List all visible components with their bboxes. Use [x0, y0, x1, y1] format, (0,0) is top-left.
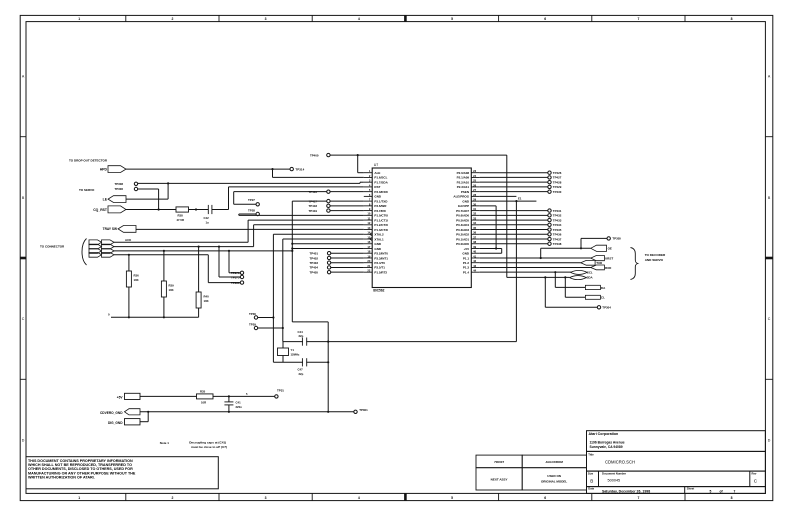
svg-text:WHICH SHALL NOT BE REPRODUCED,: WHICH SHALL NOT BE REPRODUCED, TRANSFERR…: [28, 463, 132, 467]
svg-text:Sunnyvale, CA 94089: Sunnyvale, CA 94089: [590, 445, 623, 449]
svg-text:P1.1: P1.1: [463, 256, 470, 260]
wire ground rail bottom: [140, 411, 354, 413]
svg-text:10K: 10K: [134, 278, 139, 282]
svg-text:P3.5/T1: P3.5/T1: [374, 266, 385, 270]
wire XTAL1 net pin 15: [283, 239, 364, 342]
wire TXD net pin 42: [480, 262, 581, 264]
svg-text:CL: CL: [601, 296, 605, 300]
wire pulldown ground rail: [108, 313, 199, 319]
test point TP402: [309, 256, 363, 260]
svg-text:TP304: TP304: [602, 306, 611, 310]
svg-text:3: 3: [265, 496, 267, 500]
svg-text:TP433: TP433: [553, 218, 562, 222]
svg-text:WRITTEN AUTHORIZATION OF ATARI: WRITTEN AUTHORIZATION OF ATARI.: [28, 475, 95, 479]
wire CL branch: [565, 277, 585, 297]
svg-text:TP436: TP436: [553, 233, 562, 237]
svg-text:P0.5/AD5: P0.5/AD5: [456, 218, 469, 222]
svg-text:HPD: HPD: [100, 167, 108, 171]
svg-text:TP432: TP432: [553, 214, 562, 218]
svg-text:ALE/PROG: ALE/PROG: [453, 195, 469, 199]
svg-text:C: C: [768, 317, 771, 321]
svg-text:TP437: TP437: [553, 237, 562, 241]
svg-text:P2.3/A11: P2.3/A11: [457, 185, 470, 189]
test point TP433: [480, 218, 562, 222]
connector LE: [103, 196, 126, 203]
svg-text:GND: GND: [374, 195, 382, 199]
svg-text:P0.3/AD3: P0.3/AD3: [456, 228, 469, 232]
svg-text:TP428: TP428: [553, 180, 562, 184]
wire W3: [114, 250, 293, 252]
test point TP29: [249, 323, 284, 330]
svg-text:Atari Corporation: Atari Corporation: [589, 432, 619, 436]
capacitor C41: [224, 396, 242, 413]
svg-text:P1.1/CT1I: P1.1/CT1I: [374, 218, 388, 222]
svg-text:TP31: TP31: [277, 388, 284, 392]
svg-text:Decoupling caps at (C41): Decoupling caps at (C41): [189, 441, 226, 445]
svg-text:TP376: TP376: [231, 271, 240, 275]
proprietary note box: [26, 457, 218, 489]
test point TP438: [480, 242, 562, 246]
wire DIG_GND riser: [140, 412, 148, 422]
svg-text:P1.6/SCL: P1.6/SCL: [374, 176, 387, 180]
test point TP419: [308, 209, 363, 213]
svg-text:P0.7/AD7: P0.7/AD7: [456, 209, 469, 213]
wire pin 28: [480, 195, 517, 197]
svg-text:TP429: TP429: [553, 185, 562, 189]
svg-text:TP402: TP402: [309, 256, 318, 260]
svg-text:3: 3: [265, 17, 267, 21]
svg-text:47.5R: 47.5R: [177, 218, 184, 222]
svg-text:TO SERVO: TO SERVO: [79, 188, 95, 192]
svg-text:TRAY SW: TRAY SW: [103, 227, 117, 231]
svg-text:P2.0/A08: P2.0/A08: [457, 171, 470, 175]
connector SCL: [571, 270, 593, 274]
wire RST net to pin 4: [212, 187, 364, 210]
svg-text:OE: OE: [608, 247, 612, 251]
svg-text:7: 7: [637, 496, 639, 500]
test point TP401: [309, 252, 363, 256]
svg-text:ACK: ACK: [125, 238, 132, 242]
test point TP305: [580, 237, 621, 250]
svg-text:P2.2/A10: P2.2/A10: [457, 180, 470, 184]
svg-text:C47: C47: [298, 368, 304, 372]
svg-text:P0.4/AD4: P0.4/AD4: [456, 223, 469, 227]
test point TP376: [229, 251, 244, 275]
wire GND pin 16: [291, 243, 364, 245]
svg-text:220n: 220n: [236, 405, 243, 409]
svg-text:80C562: 80C562: [373, 289, 384, 293]
svg-text:Note 1: Note 1: [160, 441, 170, 445]
connector SDA: [570, 276, 594, 280]
wire TP308 to pin 3 SDA: [138, 182, 364, 183]
svg-text:TP29: TP29: [249, 323, 256, 327]
svg-text:5: 5: [451, 496, 453, 500]
wire DA branch: [555, 272, 585, 287]
svg-text:C44: C44: [298, 330, 304, 334]
test point TP426: [480, 171, 562, 175]
connector OE: [540, 245, 612, 259]
svg-text:TP434: TP434: [553, 223, 562, 227]
test point TP31: [275, 388, 285, 398]
svg-text:TO DROP OUT DETECTOR: TO DROP OUT DETECTOR: [69, 159, 108, 163]
svg-text:1: 1: [78, 17, 80, 21]
connector DA: [585, 285, 606, 290]
svg-text:TP435: TP435: [553, 228, 562, 232]
svg-text:D: D: [22, 438, 25, 442]
svg-text:P3.0/RXD: P3.0/RXD: [374, 190, 388, 194]
svg-text:ORIGINAL MODEL: ORIGINAL MODEL: [541, 480, 567, 484]
test point TP404: [309, 266, 363, 270]
svg-text:7: 7: [734, 489, 736, 493]
svg-text:must be close to uP (U7): must be close to uP (U7): [191, 445, 227, 449]
svg-text:8: 8: [731, 17, 733, 21]
wire W4: [114, 254, 208, 256]
svg-text:TP380: TP380: [231, 281, 240, 285]
svg-text:GND: GND: [374, 242, 382, 246]
svg-text:700007: 700007: [494, 460, 504, 464]
test point TP417: [292, 199, 364, 203]
test point TP27: [234, 198, 260, 206]
test point TP30: [249, 312, 275, 319]
test point TP428: [480, 180, 562, 184]
svg-text:2: 2: [171, 496, 173, 500]
resistor R39: [161, 251, 174, 317]
test point TP301: [354, 408, 368, 414]
svg-text:TP431: TP431: [553, 209, 562, 213]
test point TP403: [309, 261, 363, 265]
svg-text:P3.7/RD: P3.7/RD: [374, 209, 386, 213]
svg-text:GND: GND: [462, 252, 470, 256]
svg-text:4: 4: [358, 496, 360, 500]
wire CQ_RST to R38: [126, 209, 176, 211]
svg-text:TP28: TP28: [248, 209, 255, 213]
svg-text:P0.2/AD2: P0.2/AD2: [456, 233, 469, 237]
svg-text:R35: R35: [200, 389, 206, 393]
svg-text:TP427: TP427: [553, 176, 562, 180]
svg-text:P0.0/AD0: P0.0/AD0: [456, 242, 469, 246]
svg-text:TP405: TP405: [309, 270, 318, 274]
svg-text:TXD: TXD: [596, 261, 603, 265]
svg-text:TO CONNECTOR: TO CONNECTOR: [40, 245, 65, 249]
wire LE branch: [126, 182, 169, 199]
svg-text:12MHz: 12MHz: [291, 353, 300, 357]
wire ALE net: [330, 154, 507, 277]
test point TP28: [239, 209, 260, 216]
svg-text:R40: R40: [204, 295, 210, 299]
svg-text:RXD: RXD: [605, 266, 612, 270]
svg-text:XTAL2: XTAL2: [374, 233, 384, 237]
wire HPD net: [126, 168, 364, 177]
svg-text:22p: 22p: [299, 372, 304, 376]
resistor R38: [176, 207, 189, 222]
connector +5V: [117, 393, 140, 399]
wire SCL net pin 44: [480, 271, 571, 273]
svg-text:TP306: TP306: [114, 187, 123, 191]
svg-text:7: 7: [637, 17, 639, 21]
svg-text:SDA: SDA: [587, 276, 594, 280]
svg-text:EA/VPP: EA/VPP: [458, 204, 469, 208]
svg-text:TP30: TP30: [249, 312, 256, 316]
svg-text:NEXT ASSY: NEXT ASSY: [491, 478, 508, 482]
test point TP436: [480, 233, 562, 237]
capacitor C44: [283, 330, 517, 346]
op-amp U7 microcontroller 80C562: [364, 163, 480, 293]
svg-text:10K: 10K: [169, 288, 174, 292]
test point TP380: [208, 255, 243, 285]
svg-text:P1.4: P1.4: [463, 270, 470, 274]
svg-text:R36: R36: [134, 274, 140, 278]
svg-text:1196 Borregas Avenue: 1196 Borregas Avenue: [590, 441, 625, 445]
brace to decoder and servo: [631, 248, 667, 280]
svg-text:R39: R39: [169, 284, 175, 288]
svg-text:TP375: TP375: [231, 275, 240, 279]
wire TRAY SW to pin 13: [136, 228, 364, 230]
svg-text:C41: C41: [236, 401, 242, 405]
svg-text:P1.5/RT2: P1.5/RT2: [374, 270, 387, 274]
svg-text:8: 8: [731, 496, 733, 500]
wire R38 to C42: [189, 208, 209, 210]
svg-text:TP27: TP27: [248, 198, 255, 202]
test point TP429: [480, 185, 562, 189]
svg-text:USED ON: USED ON: [547, 474, 561, 478]
note 1 text: [160, 441, 227, 449]
svg-text:AND SERVO: AND SERVO: [645, 258, 664, 262]
svg-text:CDVERO_GND: CDVERO_GND: [100, 411, 123, 415]
svg-text:P1.3/CT3I: P1.3/CT3I: [374, 228, 388, 232]
svg-text:500045: 500045: [608, 479, 621, 483]
svg-text:5: 5: [451, 17, 453, 21]
wire GND pin 17: [291, 247, 364, 249]
test point TP304: [545, 277, 611, 309]
svg-text:THIS DOCUMENT CONTAINS PROPRIE: THIS DOCUMENT CONTAINS PROPRIETARY INFOR…: [28, 459, 133, 463]
svg-text:6: 6: [544, 496, 546, 500]
svg-text:TP401: TP401: [309, 252, 318, 256]
svg-text:P1.2: P1.2: [463, 261, 470, 265]
wire +5V rail: [140, 392, 275, 397]
svg-text:OTHER DOCUMENTS, DISCLOSED TO: OTHER DOCUMENTS, DISCLOSED TO OTHERS, US…: [28, 467, 133, 471]
svg-text:2: 2: [171, 17, 173, 21]
svg-text:TP308: TP308: [114, 182, 123, 186]
svg-text:P1.2/CT2I: P1.2/CT2I: [374, 223, 388, 227]
svg-text:U7: U7: [374, 163, 379, 167]
test point TP434: [480, 223, 562, 227]
svg-text:1u: 1u: [206, 220, 210, 224]
svg-text:+5V: +5V: [464, 247, 469, 251]
test point TP405: [309, 270, 363, 274]
svg-text:P3.1/TXD: P3.1/TXD: [374, 199, 388, 203]
test point TP432: [480, 214, 562, 218]
svg-text:LE: LE: [103, 197, 108, 201]
svg-text:GND: GND: [462, 199, 470, 203]
test point TP435: [480, 228, 562, 232]
svg-text:10R: 10R: [201, 400, 206, 404]
wire EA/VPP to +5V: [480, 206, 498, 250]
svg-text:1: 1: [78, 496, 80, 500]
title block: [587, 431, 766, 494]
svg-text:6: 6: [544, 17, 546, 21]
svg-text:Y1: Y1: [291, 348, 295, 352]
svg-text:10K: 10K: [204, 299, 209, 303]
connector RXD: [591, 265, 612, 270]
svg-text:P1.3: P1.3: [463, 266, 470, 270]
wire pin 7 net vertical: [291, 201, 293, 322]
svg-text:TP305: TP305: [612, 237, 621, 241]
wire +5V pin 39: [480, 248, 502, 253]
connector HPD: [100, 166, 126, 173]
svg-text:P2.1/A09: P2.1/A09: [457, 176, 470, 180]
svg-text:RST: RST: [374, 185, 380, 189]
test point TP314: [290, 167, 305, 171]
svg-text:ALE: ALE: [374, 171, 380, 175]
svg-text:TP400: TP400: [310, 153, 319, 157]
test point TP418: [308, 204, 363, 208]
test point TP308: [114, 182, 137, 186]
test point TP416: [234, 190, 364, 204]
test point TP437: [480, 237, 562, 241]
svg-text:P1.0/CT0I: P1.0/CT0I: [374, 214, 388, 218]
test point TP431: [480, 209, 562, 213]
svg-text:P3.6/WR: P3.6/WR: [374, 204, 387, 208]
wire GND pin 40: [480, 252, 502, 254]
connector TXD: [581, 260, 603, 265]
connector J1 host interface arrows: [89, 240, 114, 257]
test point TP400: [310, 153, 330, 157]
wire E1 ground net pin 29: [480, 197, 537, 342]
svg-text:P1.7/SDA: P1.7/SDA: [374, 180, 388, 184]
connector CQ_RST: [93, 206, 126, 213]
resistor R35: [197, 389, 214, 404]
wire URST net pin 41: [480, 257, 591, 259]
svg-text:CDMICRO.SCH: CDMICRO.SCH: [605, 459, 635, 464]
svg-text:URST: URST: [605, 256, 613, 260]
svg-text:5: 5: [710, 489, 712, 493]
svg-text:CQ_RST: CQ_RST: [93, 208, 108, 212]
crystal Y1: [278, 342, 300, 363]
resistor R36: [126, 255, 139, 317]
svg-text:XTAL1: XTAL1: [374, 237, 384, 241]
svg-text:P0.1/AD1: P0.1/AD1: [456, 237, 469, 241]
svg-text:B: B: [590, 479, 593, 484]
test point TP375: [219, 247, 244, 280]
wire SDA net: [507, 276, 570, 278]
svg-text:Saturday, December 26, 1998: Saturday, December 26, 1998: [602, 489, 650, 493]
svg-text:TP438: TP438: [553, 242, 562, 246]
test point TP427: [480, 176, 562, 180]
svg-text:PSEN: PSEN: [461, 190, 469, 194]
svg-text:+5V: +5V: [117, 395, 124, 399]
svg-text:R38: R38: [178, 214, 184, 218]
svg-text:D: D: [768, 438, 771, 442]
connector DIG_GND: [108, 419, 140, 425]
resistor R40: [196, 247, 209, 318]
svg-text:SCL: SCL: [587, 270, 593, 274]
svg-text:P0.6/AD6: P0.6/AD6: [456, 214, 469, 218]
svg-text:4: 4: [358, 17, 360, 21]
wire XTAL2 net pin 14: [273, 234, 363, 362]
test point TP306: [114, 187, 137, 191]
svg-text:C: C: [22, 317, 25, 321]
capacitor C42: [204, 205, 212, 225]
svg-text:TO DECODER: TO DECODER: [645, 253, 666, 257]
svg-text:GND: GND: [374, 247, 382, 251]
svg-text:TP419: TP419: [308, 209, 317, 213]
connector URST: [591, 256, 614, 261]
svg-text:P3.2/INT0: P3.2/INT0: [374, 252, 388, 256]
svg-text:DIG_GND: DIG_GND: [108, 421, 123, 425]
svg-text:TP430: TP430: [553, 190, 562, 194]
svg-text:TP418: TP418: [308, 204, 317, 208]
svg-text:C42: C42: [204, 216, 210, 220]
connector CDVERO_GND: [100, 409, 140, 415]
svg-text:P3.4/T0: P3.4/T0: [374, 261, 385, 265]
connector TRAY SW: [103, 226, 136, 233]
test point TP430: [480, 190, 562, 194]
capacitor C47: [273, 358, 329, 376]
svg-text:TP426: TP426: [553, 171, 562, 175]
svg-text:TP404: TP404: [309, 266, 318, 270]
wire RXD net pin 43: [480, 266, 591, 268]
wire ACK W1 to pin 11: [114, 220, 364, 242]
next assy block: [476, 455, 587, 490]
svg-text:TP301: TP301: [359, 408, 368, 412]
wire TP28 to pin 10: [239, 214, 364, 215]
svg-text:JAGCDROM: JAGCDROM: [545, 460, 563, 464]
svg-text:E1: E1: [518, 197, 522, 201]
brace connector group: [82, 239, 87, 266]
svg-text:MANUFACTURING OR ANY OTHER PUR: MANUFACTURING OR ANY OTHER PURPOSE WITHO…: [28, 471, 136, 475]
svg-text:TP403: TP403: [309, 261, 318, 265]
wire W2 to pin 12: [114, 225, 364, 248]
svg-text:TP314: TP314: [295, 167, 304, 171]
wire TP306 to CQ_RST net: [138, 189, 160, 211]
wire ground link to C44 C47: [292, 322, 328, 412]
connector CL: [585, 295, 605, 299]
svg-text:P3.3/INT1: P3.3/INT1: [374, 256, 388, 260]
